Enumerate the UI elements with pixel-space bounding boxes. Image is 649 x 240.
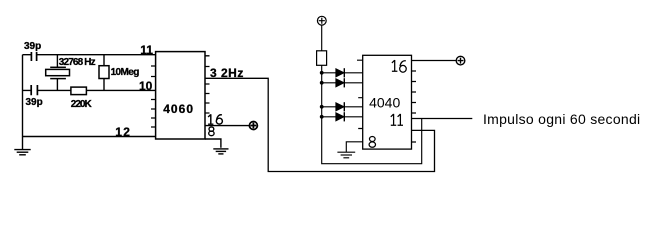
ground G1 (left rail) bbox=[14, 137, 30, 155]
svg-text:12: 12 bbox=[115, 125, 131, 139]
supply symbol P1 circled plus bbox=[249, 122, 257, 130]
svg-text:10Meg: 10Meg bbox=[111, 67, 140, 78]
pin stubs U1 right bbox=[205, 56, 210, 113]
svg-text:220K: 220K bbox=[71, 99, 93, 110]
wire left vertical rail bbox=[22, 55, 24, 137]
svg-text:32768 Hz: 32768 Hz bbox=[59, 57, 96, 68]
diode D1 bbox=[322, 68, 363, 77]
svg-text:Impulso ogni 60 secondi: Impulso ogni 60 secondi bbox=[483, 111, 640, 127]
wire net 2Hz from pin 3 to 4040 clock bbox=[205, 78, 435, 171]
pin label 11 (drawn glyphs) bbox=[391, 114, 403, 125]
svg-text:4040: 4040 bbox=[369, 94, 400, 110]
wire ground pin of 4040 bbox=[346, 142, 362, 152]
wire supply to resistor R3 bbox=[321, 25, 323, 51]
wire common anode rail bbox=[322, 65, 422, 163]
diode D3 bbox=[322, 102, 363, 111]
ground G3 (4040) bbox=[337, 152, 355, 158]
supply symbol P2 circled plus (top) bbox=[317, 16, 326, 25]
wire bottom rail to pin 10 bbox=[23, 89, 156, 91]
svg-text:39p: 39p bbox=[24, 41, 41, 52]
diode D4 bbox=[322, 112, 363, 121]
svg-text:11: 11 bbox=[140, 43, 153, 57]
wire pin 16 to supply bbox=[205, 125, 249, 127]
ground G2 (4060 pin 8) bbox=[213, 149, 228, 154]
svg-text:39p: 39p bbox=[26, 97, 43, 108]
wire pin 11 output bbox=[412, 118, 473, 120]
pin label 16 (drawn glyphs) bbox=[392, 60, 406, 72]
wire pin 16 of 4040 to supply bbox=[412, 60, 457, 62]
resistor R1 10Meg bbox=[99, 55, 109, 91]
pin label 16 (drawn glyphs) bbox=[208, 114, 222, 124]
resistor R2 220K bbox=[71, 87, 87, 95]
pin stubs U1 left bbox=[151, 66, 156, 127]
svg-text:4060: 4060 bbox=[163, 102, 194, 116]
svg-text:10: 10 bbox=[139, 79, 153, 93]
wire top rail to pin 11 bbox=[23, 54, 156, 56]
node junction dots bbox=[320, 71, 324, 119]
capacitor C2 39p plates bbox=[31, 85, 37, 95]
wire pin 12 bbox=[23, 136, 156, 138]
resistor R3 pull-up bbox=[317, 51, 327, 66]
capacitor C1 39p plates bbox=[31, 52, 36, 61]
op-amp U1 4060 box bbox=[156, 52, 205, 139]
pin stubs U2 right bbox=[412, 71, 417, 142]
pin stubs U2 left bbox=[357, 60, 363, 128]
crystal Q1 32768 Hz bbox=[46, 55, 70, 91]
pin label 8 (drawn glyphs) bbox=[369, 137, 375, 148]
wire pin 8 to ground bbox=[205, 139, 221, 148]
diode D2 bbox=[322, 78, 363, 87]
supply symbol P3 circled plus bbox=[456, 56, 465, 65]
op-amp U2 4040 box bbox=[363, 55, 412, 149]
pin label 8 (drawn glyphs) bbox=[209, 127, 214, 136]
